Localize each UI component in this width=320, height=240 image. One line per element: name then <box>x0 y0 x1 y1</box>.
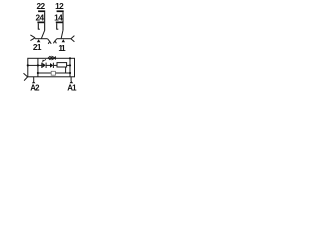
svg-text:12: 12 <box>55 1 64 11</box>
svg-text:22: 22 <box>37 1 46 11</box>
svg-text:21: 21 <box>33 42 42 52</box>
svg-text:24: 24 <box>36 13 45 23</box>
svg-text:14: 14 <box>54 13 63 23</box>
